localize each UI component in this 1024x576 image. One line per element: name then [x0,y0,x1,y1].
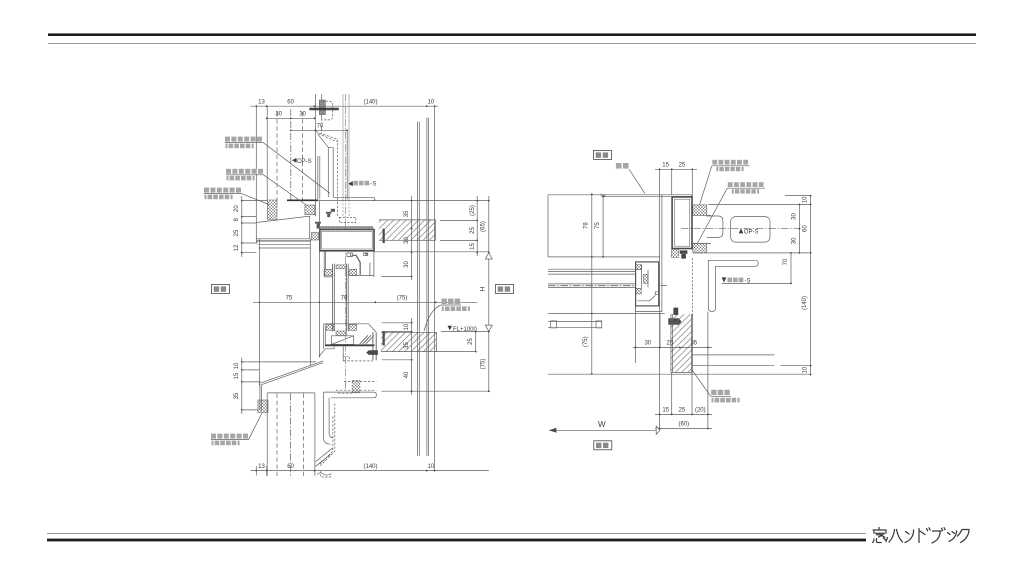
svg-text:60: 60 [287,464,294,470]
svg-text:25: 25 [679,407,686,413]
anchor bolt shank [319,100,325,115]
marker OP-S (left drawing) [292,158,312,165]
svg-text:60: 60 [803,225,809,232]
extension y=276.5 [381,276,411,278]
top border thin rule [48,43,976,44]
sill weep slope lines [360,335,374,344]
svg-text:35: 35 [404,342,410,349]
flashing vertical leg [328,148,333,198]
wall centerline x=290.8 [290,109,292,200]
right dim col (25)/25/15 [476,196,478,256]
head trim flange [256,240,311,242]
wood frame strip edges [671,314,693,372]
svg-text:10: 10 [803,196,809,203]
FL reference line [441,331,489,333]
corner screw block [673,308,678,315]
lower wall centerline [290,394,292,477]
svg-text:35: 35 [690,340,697,346]
mid dim col 35/30/30 [411,196,413,280]
svg-text:13: 13 [258,100,265,106]
head angle bold leg [287,199,318,201]
svg-text:-S: -S [370,182,376,188]
jamb frame inner line [674,199,689,246]
wood frame hatch strip [671,314,693,372]
right drawing text labels (pseudo-glyph kanji) [594,151,766,450]
lower rail stub lines [548,321,602,327]
svg-text:(20): (20) [695,407,706,413]
svg-text:20: 20 [234,205,240,212]
svg-text:60: 60 [287,100,294,106]
wall extension line x=256 [255,106,257,222]
hidden hanger bolts [343,94,349,200]
marker sash-S (left drawing) [348,181,376,188]
stile crosshatch glass side [644,274,649,283]
frame bottom screws [680,250,688,258]
svg-text:OP-S: OP-S [744,229,759,235]
svg-text:25: 25 [667,340,674,346]
svg-text:10: 10 [234,362,240,369]
svg-text:10: 10 [404,323,410,330]
extension lines for 25-col [440,220,477,240]
extension x=692 lower [691,372,693,414]
label sealing シーリング材 (lower) [204,188,269,205]
glazing gasket right (head) [349,269,357,275]
head frame box [320,230,374,251]
wall break curl [317,473,331,475]
svg-text:75: 75 [595,222,601,229]
svg-text:15: 15 [662,163,669,169]
svg-text:70: 70 [317,124,324,130]
bottom dim line 15/25/(20) [655,413,712,415]
sill frame top edge [324,324,377,332]
finish line A [692,354,774,356]
svg-text:75: 75 [286,296,293,302]
W dimension line [549,429,656,431]
flashing horizontal leg with rounded end [333,197,375,200]
right extension line x=434.6 [434,106,436,470]
svg-text:30: 30 [644,340,651,346]
label wood frame 木額縁(別途工事) [424,299,470,331]
head frame inner line [322,231,373,249]
svg-text:70: 70 [341,296,348,302]
svg-text:30: 30 [299,112,306,118]
svg-text:30: 30 [791,237,797,244]
glass spacer bottom [336,331,346,336]
svg-text:(65): (65) [481,221,487,232]
interior soffit line [374,251,489,253]
stile crosshatch bottom [636,288,641,294]
setting block small rect [347,253,353,257]
lower wall hidden line [276,394,278,477]
W open arrowhead [656,426,660,434]
head trim trapezoid [256,216,309,239]
extension x=671.7 lower [671,372,673,414]
long line bottom of opening [693,252,811,254]
svg-text:(140): (140) [802,296,808,310]
glazing gasket left (sill) [326,324,334,330]
wood frame hatch top [379,220,436,240]
track line long [548,313,665,315]
dim col 30/30 right [799,204,801,253]
left dim col 20/8/25/12 [241,196,243,257]
right wall line pair 2 [427,118,429,456]
hidden roller dashes [343,360,373,362]
head angle vertical pair [318,156,320,200]
finish line B with gap [692,365,810,367]
rounded trim piece large [731,217,770,243]
svg-text:(140): (140) [363,100,377,106]
screw cluster left [315,209,335,229]
second dimension line 30/30 [267,117,315,119]
bottom border thick rule [47,539,866,542]
svg-text:W: W [598,420,606,429]
svg-text:12: 12 [234,244,240,251]
glazing gasket right (sill) [349,324,357,330]
opening jamb line left [258,239,260,386]
reveal lines right of seal blocks [693,215,711,243]
glass double line [548,284,648,287]
glazing bead profile [353,255,361,275]
stile interlock step [637,292,658,301]
sash stile box [636,262,659,306]
liner end small rect [655,302,659,306]
hidden roller box [352,380,360,393]
left drawing text labels (pseudo-glyph kanji) [204,137,514,446]
svg-text:25: 25 [234,229,240,236]
head reference line (long) [287,200,489,202]
wall cut end left [547,195,549,257]
extension lines top [672,169,693,196]
svg-text:35: 35 [234,392,240,399]
lower track piece [636,306,662,312]
backer rod bead row [321,226,373,229]
svg-text:(25): (25) [470,205,476,216]
label sealing シーリング材 (upper) [226,169,307,206]
label water drip 水切 [616,163,645,194]
wall exterior face line [548,194,691,196]
sealing block D [258,400,268,413]
svg-text:30: 30 [275,112,282,118]
lower wall hidden line 2 [302,394,304,477]
sill gasket shelves [326,323,357,325]
sealing block 1 (exterior) [693,205,707,215]
outer dim col 10/60/(140)/10 [810,196,812,375]
lower wall top edge [267,392,315,394]
exterior box 外部 (right drawing) [594,151,612,160]
frame leg left [324,251,325,277]
svg-text:25: 25 [468,338,474,345]
frame bottom seal crosshatch [671,249,679,257]
stile inner lines [636,265,648,289]
interior finish line [309,239,311,366]
sill anchor bolt [366,350,378,355]
sash centerline horizontal [548,285,667,287]
flashing solid fold [318,134,329,148]
sash top rail lines [548,269,648,274]
wall hidden line x=277 [276,112,278,200]
steel angle below sill [323,392,333,444]
lower wall left edge [266,393,268,476]
glazing gasket left (head) [325,269,333,275]
svg-text:13: 13 [258,464,265,470]
corner key small rect [364,253,368,255]
interior box 内部 (right drawing) [594,441,612,450]
stile crosshatch top [636,265,641,270]
wall end inner vertical [661,195,663,312]
svg-text:(75): (75) [583,336,589,347]
sealing block C [311,233,318,241]
svg-text:35: 35 [404,210,410,217]
extension x=635.6 lower [635,306,637,363]
svg-text:30: 30 [404,261,410,268]
dim col 78/(75) [591,194,593,374]
lower wall right face [314,393,316,476]
wall hidden line x=302.6 [302,112,304,200]
svg-text:OP-S: OP-S [297,159,312,165]
outer dim col (65) [488,196,490,253]
glass spacer top (crosshatch) [336,265,346,269]
sill frame left edge [324,324,326,349]
interior box 内部 (left drawing) [496,285,514,294]
H dimension line with open triangles [488,259,490,325]
extension x=660 mid [659,314,661,348]
top dimension line 13/60/(140)/10 [251,105,439,107]
weatherboard slope [261,361,323,385]
wood frame screw top [383,229,385,244]
dim col 75 [602,197,604,257]
weatherboard drip [260,383,262,411]
label sealing 2 シーリング材 [698,182,766,243]
sill reference line segment B [382,390,489,392]
sash centerline [345,94,347,390]
sill interior vertical [342,345,344,361]
jamb frame box [672,197,692,249]
long line top of finish [708,203,810,205]
svg-text:15: 15 [234,372,240,379]
marker OP-S (right drawing) [739,228,759,235]
horizontal dim line 75/70/(75) [253,301,477,303]
sill frame right face [373,332,376,360]
anchor nut bracket (hidden) [322,101,332,120]
dim (75) lower right [488,332,490,392]
break mark on 75 line [601,194,606,197]
glass unit vertical lines [333,264,349,331]
lower rail stub box right [596,321,602,328]
hidden sash below (dashed) [336,382,376,394]
dimension line 70 [291,129,347,131]
wood frame hatch bottom [381,332,437,351]
sill flashing plate line [604,195,692,197]
svg-text:30: 30 [791,213,797,220]
anchor bolt centerline [321,94,323,136]
support diagonals [316,448,333,466]
extension x=707.9 [707,312,709,429]
bottom border thin rule [47,533,866,534]
wall line x=267 [266,106,268,200]
svg-text:15: 15 [662,407,669,413]
anchor plate edge-on (bold) [309,108,339,109]
interior casing L [708,260,758,311]
hidden furring boot [319,404,335,466]
svg-text:40: 40 [404,371,410,378]
top dim line 15/25 [655,168,697,170]
gasket shelves [324,269,374,277]
sash-S reference vertical [346,130,348,199]
label sealing bottom left シーリング材 [211,413,262,445]
sill frame bottom (bold) [325,344,375,346]
svg-text:(75): (75) [397,296,408,302]
flashing hidden vertical [336,139,338,217]
right wall line pair 1 [418,122,420,456]
sill glazing channel with diagonal [332,336,354,345]
left col extension stubs [242,201,267,253]
sill reference line segment A (rounded end) [323,392,376,398]
label flashing フラッシング [225,137,330,194]
svg-text:10: 10 [427,100,434,106]
inner face line [318,201,320,357]
frame leg right [370,251,374,277]
label sealing 1 シーリング材 [700,160,750,205]
svg-text:FL+1000: FL+1000 [453,327,478,333]
head soffit lines [258,244,310,248]
mid dim line 30/25/35 [633,346,712,348]
sealing block 2 (interior) [693,243,707,253]
mid sill dim col 10/35/40 [411,318,413,395]
svg-text:10: 10 [427,464,434,470]
corner screw at wood frame [668,318,681,325]
frame hidden centerline down [692,258,694,316]
left sill dim col 10/15/35 [241,358,243,415]
hidden hanger nut box [339,217,356,222]
sill mid extensions [382,323,412,360]
lower rail stub box left [551,321,557,328]
svg-text:(75): (75) [481,359,487,370]
svg-text:78: 78 [584,222,590,229]
wall face line x=315.4 [314,94,316,216]
bottom dimension line 13/60/(140)/10 [251,470,489,472]
interior face line long [548,373,811,375]
svg-text:10: 10 [803,366,809,373]
marker sash-S (right drawing) [722,277,751,284]
bottom dim line (60) [655,428,712,430]
sealing block B [305,205,315,215]
svg-text:30: 30 [404,237,410,244]
bottom extension stubs [256,466,266,476]
wall end vertical (reveal) [659,169,661,428]
svg-text:25: 25 [470,227,476,234]
svg-text:(140): (140) [363,464,377,470]
sill col extension stubs [242,362,316,410]
sealing block A [267,200,277,219]
head trim lip [256,239,258,244]
footer logotype 窓ハンドブック (drawn strokes) [873,528,970,544]
wood frame screw bottom [383,331,385,346]
svg-text:70: 70 [783,258,789,265]
extension y=195.6 [785,195,811,197]
wall interior face line [548,256,660,258]
hidden stub below dim line [321,471,331,477]
svg-text:H: H [479,286,486,291]
svg-text:15: 15 [470,243,476,250]
label wood frame 木額縁(別途工事) right [692,370,740,402]
sash-S underline to dim [722,282,791,284]
svg-text:25: 25 [679,163,686,169]
rounded trim piece small [707,216,723,237]
sill step flange [320,346,334,357]
svg-text:(60): (60) [678,422,689,428]
exterior box 外部 (left drawing) [212,285,230,294]
dim 25 below FL [475,332,477,352]
FL+1000 label [448,326,453,331]
horizontal centerline [681,228,800,230]
top border thick rule [48,33,976,36]
flashing hidden fold (dashed diagonals) [316,132,338,142]
dim 70 [790,253,792,284]
